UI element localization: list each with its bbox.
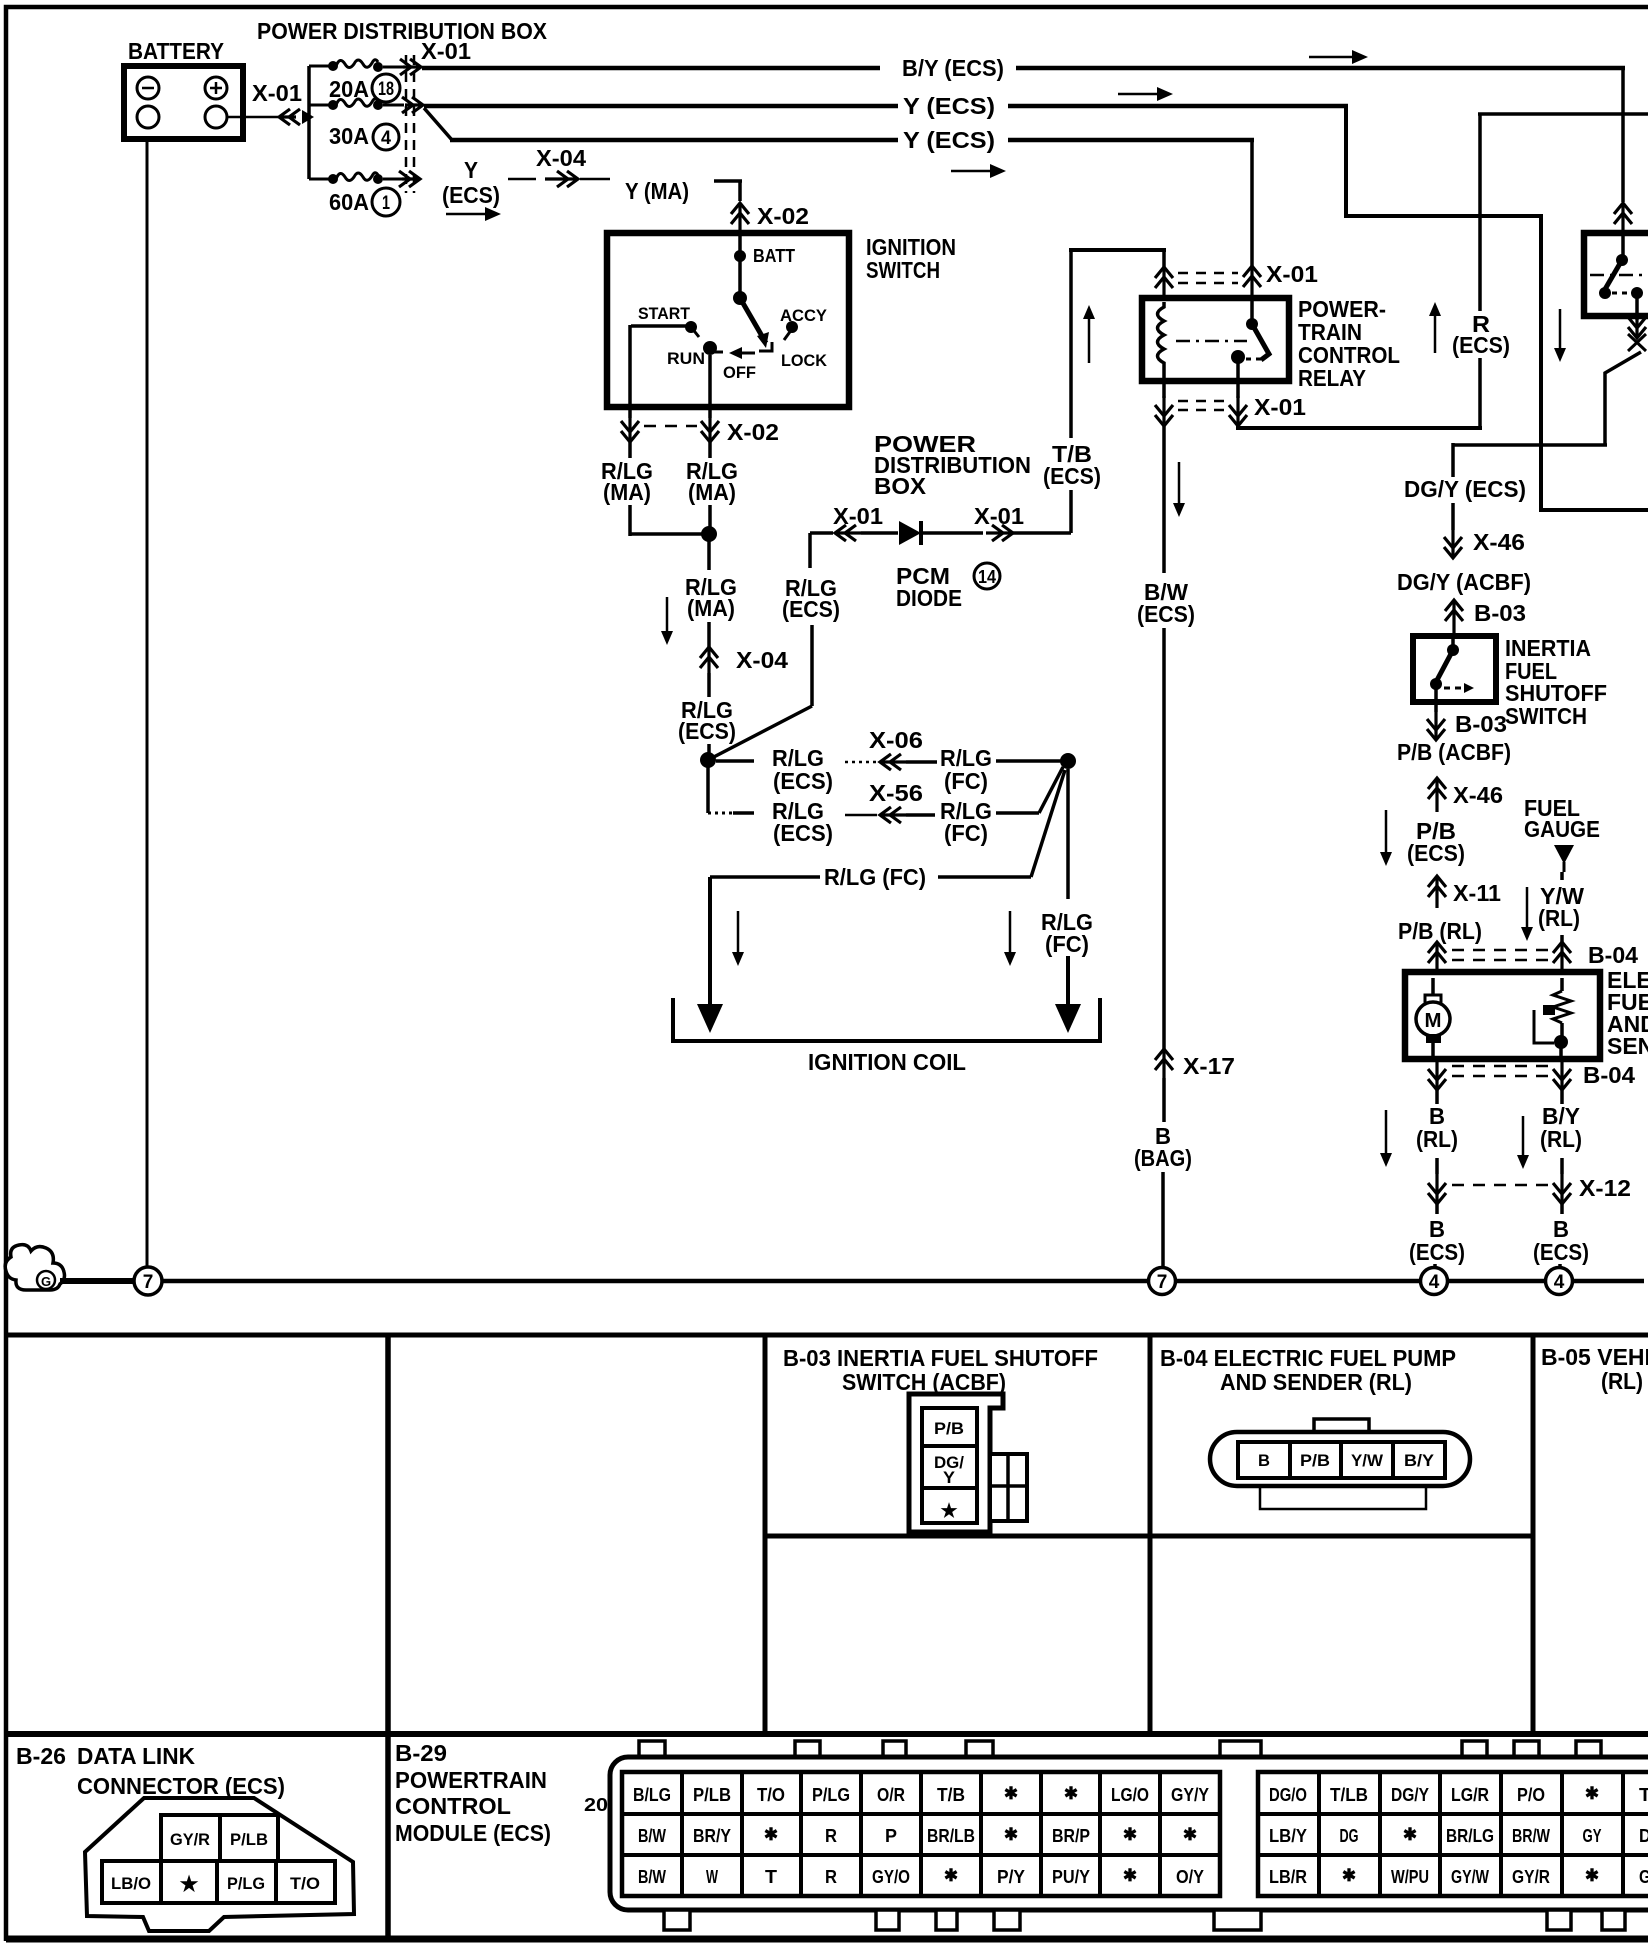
wire T/B riser [1069, 490, 1073, 533]
arrow coil left [737, 911, 740, 953]
svg-text:BR/Y: BR/Y [693, 1826, 731, 1846]
svg-text:X-11: X-11 [1453, 880, 1501, 906]
svg-text:IGNITION COIL: IGNITION COIL [808, 1049, 966, 1075]
svg-text:✱: ✱ [1183, 1825, 1197, 1844]
svg-text:DG/Y (ECS): DG/Y (ECS) [1404, 476, 1526, 502]
table sub divider [765, 1534, 1533, 1539]
svg-text:SWITCH (ACBF): SWITCH (ACBF) [842, 1369, 1006, 1395]
wire diode label down [810, 625, 814, 706]
svg-text:B-04: B-04 [1588, 942, 1638, 968]
connector X-01 relay bottom pair [1162, 396, 1165, 426]
wire B ECS right end [1558, 1264, 1562, 1267]
battery minus terminal [137, 77, 159, 99]
svg-text:30A: 30A [329, 123, 369, 149]
svg-text:D: D [1639, 1826, 1648, 1846]
svg-text:(ECS): (ECS) [782, 596, 840, 622]
svg-text:✱: ✱ [1123, 1825, 1137, 1844]
wire R/LG FC row3 [710, 875, 820, 879]
wire to junction 2 [707, 744, 711, 755]
svg-text:(ECS): (ECS) [1137, 601, 1195, 627]
svg-text:P/LB: P/LB [693, 1785, 731, 1805]
svg-text:LOCK: LOCK [781, 351, 828, 370]
ignition switch box [607, 233, 849, 407]
relay switch pin [1250, 298, 1254, 322]
svg-text:B/W: B/W [638, 1826, 666, 1846]
B-26 pin P/LB [220, 1815, 278, 1861]
wire Y (ECS) 2 left [424, 104, 898, 109]
fuse 30A [328, 100, 338, 110]
wire B ECS right [1560, 1204, 1564, 1214]
svg-text:ACCY: ACCY [780, 306, 828, 325]
inertia switch arm [1436, 650, 1453, 682]
svg-text:(ECS): (ECS) [1043, 463, 1101, 489]
B-04 connector top tab [1314, 1419, 1369, 1434]
svg-text:B-26: B-26 [16, 1743, 66, 1769]
arrow T/B up [1088, 318, 1091, 363]
svg-text:✱: ✱ [1064, 1784, 1078, 1803]
connector X-01 relay top pair [1162, 267, 1165, 298]
ground point 7 battery [134, 1267, 162, 1295]
fuse number 18 [372, 74, 400, 102]
svg-text:(RL): (RL) [1416, 1126, 1458, 1152]
relay link dashes [1176, 340, 1247, 343]
wire R/LG ECS row1 [716, 759, 754, 763]
svg-text:P: P [885, 1826, 897, 1846]
svg-text:Y/W: Y/W [1351, 1451, 1384, 1470]
connector X-11 up [1435, 876, 1438, 908]
svg-text:MODULE (ECS): MODULE (ECS) [395, 1820, 551, 1846]
fuel pump relay out [1635, 293, 1639, 320]
svg-text:X-46: X-46 [1473, 529, 1525, 555]
svg-text:GY/Y: GY/Y [1171, 1785, 1209, 1805]
inertia fuel shutoff switch box [1413, 636, 1496, 702]
svg-text:(ECS): (ECS) [773, 820, 833, 846]
svg-text:DATA LINK: DATA LINK [77, 1743, 195, 1769]
svg-text:LB/O: LB/O [111, 1874, 151, 1893]
svg-text:★: ★ [940, 1501, 957, 1522]
svg-text:X-06: X-06 [869, 727, 923, 753]
ground bus wire [60, 1279, 1644, 1284]
svg-text:60A: 60A [329, 189, 369, 215]
B-26 pin T/O [276, 1861, 335, 1903]
arrow down right [1559, 309, 1562, 349]
wire coil left drop [708, 877, 712, 1004]
svg-text:B-03: B-03 [1455, 711, 1507, 737]
svg-text:✱: ✱ [944, 1866, 958, 1885]
svg-text:RELAY: RELAY [1298, 365, 1366, 391]
svg-text:GAUGE: GAUGE [1524, 816, 1600, 842]
relay output pin [1236, 362, 1240, 398]
connector B-03 up [1452, 600, 1455, 634]
B-26 pin LB/O [102, 1861, 161, 1903]
svg-text:DG: DG [1340, 1826, 1359, 1846]
svg-text:P/O: P/O [1517, 1785, 1545, 1805]
svg-text:X-02: X-02 [727, 419, 779, 445]
inertia switch pin [1451, 636, 1455, 648]
fuel sender resistor [1560, 978, 1564, 991]
table row divider [6, 1731, 1648, 1737]
wire B ECS left [1435, 1204, 1439, 1214]
wire R/LG ECS row2 [706, 760, 710, 813]
ground point 7 bag [1149, 1268, 1176, 1295]
svg-text:CONNECTOR (ECS): CONNECTOR (ECS) [77, 1773, 285, 1799]
svg-text:W: W [706, 1867, 718, 1887]
svg-text:T: T [1639, 1785, 1648, 1805]
svg-text:(RL): (RL) [1540, 1126, 1582, 1152]
svg-text:(ECS): (ECS) [1407, 840, 1465, 866]
wire B/Y (ECS) right [1016, 66, 1625, 71]
B-03 connector tabs [990, 1454, 1027, 1521]
fuse 60A [328, 174, 338, 184]
svg-text:X-01: X-01 [252, 80, 302, 106]
wire B BAG top [1162, 1078, 1166, 1122]
svg-text:Y (ECS): Y (ECS) [903, 127, 995, 153]
fuel pump relay contacts [1599, 287, 1611, 299]
svg-text:BATTERY: BATTERY [128, 38, 224, 64]
svg-text:✱: ✱ [1585, 1866, 1599, 1885]
battery B+ box [124, 66, 243, 139]
svg-text:SWITCH: SWITCH [866, 257, 940, 283]
connector X-12 pair [1435, 1174, 1438, 1204]
B-03 connector outline [909, 1394, 1003, 1532]
svg-text:P/B (RL): P/B (RL) [1398, 918, 1482, 944]
svg-text:P/B (ACBF): P/B (ACBF) [1397, 739, 1511, 765]
B-26 pin P/LG [217, 1861, 276, 1903]
fuse bus [307, 66, 311, 179]
svg-text:18: 18 [378, 79, 394, 100]
connector X-01 out 60A [402, 177, 420, 180]
connector X-01 out 20A [403, 65, 421, 68]
svg-text:B/Y (ECS): B/Y (ECS) [902, 55, 1004, 81]
B-04 connector cells [1238, 1442, 1445, 1478]
arrow Y2 direction [1118, 93, 1159, 96]
contact OFF [733, 352, 755, 355]
svg-text:BR/P: BR/P [1052, 1826, 1090, 1846]
wire RUN to junction [708, 505, 712, 528]
wire FC row3 diagonal [938, 875, 1031, 879]
pin BATT [738, 233, 742, 255]
table column divider 1 [385, 1335, 391, 1937]
junction R/LG 2 [700, 752, 716, 768]
powertrain control relay box [1142, 298, 1289, 381]
svg-text:BR/LB: BR/LB [927, 1826, 975, 1846]
svg-text:SWITCH: SWITCH [1505, 703, 1587, 729]
relay coil pin bottom [1162, 378, 1166, 398]
svg-text:P/B: P/B [934, 1419, 964, 1438]
arrow coil right [1009, 911, 1012, 953]
B-29 connector bottom tabs [664, 1910, 690, 1930]
fuse number 1 [372, 188, 400, 216]
connector chevron relay out [1635, 320, 1638, 338]
svg-text:B/Y: B/Y [1404, 1451, 1435, 1470]
wire relay out diagonal [1605, 352, 1641, 445]
arrow Y/W down [1526, 887, 1529, 928]
svg-text:(FC): (FC) [1045, 931, 1089, 957]
wire to X-04 [707, 622, 711, 647]
wire RUN branch [708, 355, 712, 418]
connector X-46 up [1435, 778, 1438, 812]
ground symbol [5, 1245, 64, 1290]
svg-text:Y: Y [943, 1468, 956, 1487]
svg-text:AND SENDER (RL): AND SENDER (RL) [1220, 1369, 1412, 1395]
svg-text:(FC): (FC) [944, 820, 988, 846]
connector chevron B/Y relay [1621, 203, 1624, 233]
svg-text:(ECS): (ECS) [678, 718, 736, 744]
wire junction down [707, 541, 711, 570]
arrow B/W down [1178, 462, 1181, 504]
fuel sender wiper [1543, 1005, 1555, 1015]
B-29 connector outer shell [610, 1757, 1648, 1910]
svg-text:X-01: X-01 [974, 503, 1024, 529]
svg-text:B/W: B/W [638, 1867, 666, 1887]
svg-text:LB/Y: LB/Y [1269, 1826, 1307, 1846]
fuse 20A [328, 61, 338, 71]
connector X-17 up [1162, 1049, 1165, 1078]
svg-text:(FC): (FC) [944, 768, 988, 794]
electric fuel pump and sender box [1405, 972, 1600, 1059]
svg-text:BATT: BATT [753, 246, 795, 266]
arrow B/Y direction [1309, 56, 1354, 59]
svg-text:X-04: X-04 [736, 647, 788, 673]
connector X-06 inline [845, 761, 877, 764]
svg-text:★: ★ [180, 1873, 199, 1896]
ground point 4 right [1546, 1268, 1573, 1295]
wire battery ground drop [146, 139, 149, 1267]
svg-text:B-04 ELECTRIC FUEL PUMP: B-04 ELECTRIC FUEL PUMP [1160, 1345, 1456, 1371]
relay switch arm [1252, 324, 1269, 360]
arrow Y60A direction [446, 213, 487, 216]
svg-text:X-56: X-56 [869, 780, 923, 806]
arrow B/Y down [1522, 1116, 1525, 1156]
svg-text:BR/LG: BR/LG [1446, 1826, 1494, 1846]
wire DG/Y top [1451, 443, 1455, 477]
svg-text:GY/W: GY/W [1451, 1867, 1489, 1887]
B-26 pin star [161, 1861, 217, 1903]
ignition coil bracket [673, 998, 1100, 1041]
connector X-01 battery [279, 115, 296, 118]
svg-text:T/B: T/B [937, 1785, 965, 1805]
svg-text:BOX: BOX [874, 473, 927, 499]
contact RUN [703, 341, 717, 355]
svg-text:R/LG (FC): R/LG (FC) [824, 864, 926, 890]
wire to fuse 30A [309, 104, 331, 107]
svg-text:R: R [825, 1826, 837, 1846]
svg-text:Y (ECS): Y (ECS) [903, 93, 995, 119]
svg-text:X-04: X-04 [536, 145, 586, 171]
relay coil [1158, 302, 1165, 378]
junction R/LG FC [1060, 753, 1076, 769]
svg-text:GY/O: GY/O [872, 1867, 910, 1887]
wire Y (MA) to ignition [714, 179, 742, 183]
connector X-01 out 30A [405, 103, 423, 106]
svg-text:(ECS): (ECS) [1409, 1239, 1465, 1265]
svg-text:GY/R: GY/R [1512, 1867, 1550, 1887]
connector X-04 mid [707, 647, 710, 673]
svg-text:4: 4 [1429, 1272, 1440, 1293]
arrow R up [1434, 315, 1437, 353]
contact START [685, 321, 697, 333]
wire START branch [631, 324, 686, 328]
wire B/Y (ECS) left [422, 66, 880, 71]
svg-text:PU/Y: PU/Y [1052, 1867, 1090, 1887]
svg-text:M: M [1425, 1010, 1442, 1032]
switch arm ignition [740, 298, 766, 343]
wire B ECS left end [1433, 1264, 1437, 1267]
wire Y (ECS) 3 right [1008, 138, 1254, 143]
svg-text:DG/Y (ACBF): DG/Y (ACBF) [1397, 569, 1531, 595]
wire RUN down [708, 442, 712, 458]
svg-text:DG/O: DG/O [1269, 1785, 1307, 1805]
wire DG/Y mid [1451, 503, 1455, 530]
ground point 4 left [1421, 1268, 1448, 1295]
arrow Y3 direction [951, 170, 992, 173]
svg-text:X-01: X-01 [1266, 261, 1318, 287]
svg-text:✱: ✱ [764, 1825, 778, 1844]
table column divider 4 [1531, 1335, 1536, 1734]
svg-text:✱: ✱ [1585, 1784, 1599, 1803]
wire B (RL) [1435, 1090, 1439, 1104]
wire diode corner [808, 533, 812, 568]
svg-text:(ECS): (ECS) [442, 182, 500, 208]
svg-text:1: 1 [382, 193, 390, 214]
table column divider 2 [763, 1335, 768, 1734]
svg-text:Y: Y [464, 157, 478, 183]
table top border [6, 1333, 1648, 1338]
svg-text:✱: ✱ [1004, 1825, 1018, 1844]
contact LOCK [759, 342, 772, 351]
svg-text:B-04: B-04 [1583, 1062, 1635, 1088]
wire Y (ECS) 3 left [450, 138, 898, 143]
wire 30A to Y3 jog [424, 108, 452, 140]
svg-text:SENDER: SENDER [1607, 1033, 1648, 1059]
svg-text:B: B [1258, 1451, 1270, 1470]
connector X-02 ignition top [738, 203, 741, 233]
contact ACCY [786, 321, 798, 333]
svg-text:4: 4 [1554, 1272, 1565, 1293]
svg-text:B-03: B-03 [1474, 600, 1526, 626]
connector X-46 down [1451, 530, 1454, 558]
svg-text:DG/Y: DG/Y [1391, 1785, 1429, 1805]
fuel pump relay pin [1621, 233, 1625, 258]
connector X-04 inline [508, 178, 536, 181]
wire to fuse 60A [309, 178, 331, 181]
svg-text:(BAG): (BAG) [1134, 1145, 1192, 1171]
svg-text:LG/R: LG/R [1451, 1785, 1489, 1805]
svg-text:14: 14 [978, 567, 996, 587]
wire diagonal to junction [708, 706, 812, 760]
svg-text:O/R: O/R [877, 1785, 905, 1805]
wire START to junction [628, 505, 632, 536]
svg-text:✱: ✱ [1123, 1866, 1137, 1885]
svg-text:GY: GY [1583, 1826, 1602, 1846]
wire BATT to pivot [738, 256, 742, 297]
wire FC row2 diagonal [996, 811, 1039, 815]
svg-text:X-01: X-01 [833, 503, 883, 529]
svg-text:T/LB: T/LB [1330, 1785, 1368, 1805]
wire B/W top [1162, 426, 1166, 460]
wire Y/W [1560, 872, 1564, 880]
connector X-01 diode left [810, 531, 833, 535]
B-04 connector stadium [1210, 1432, 1470, 1486]
connector X-01 dashes [405, 55, 408, 193]
svg-text:✱: ✱ [1004, 1784, 1018, 1803]
svg-text:20: 20 [584, 1795, 608, 1815]
svg-text:LG/O: LG/O [1111, 1785, 1149, 1805]
wire Y (ECS) 2 right [1008, 104, 1348, 109]
svg-text:W/PU: W/PU [1391, 1867, 1429, 1887]
svg-text:CONTROL: CONTROL [395, 1793, 511, 1819]
svg-text:BR/W: BR/W [1512, 1826, 1550, 1846]
B-29 connector top tabs [639, 1741, 665, 1758]
wire FC row1 to junction [996, 759, 1061, 763]
svg-text:RUN: RUN [667, 349, 705, 368]
wire battery to X-01 [227, 116, 278, 119]
B-26 connector outline [85, 1798, 354, 1931]
connector X-02 bottom pair [628, 418, 631, 442]
svg-text:P/LG: P/LG [227, 1874, 265, 1893]
B-26 pin GY/R [161, 1815, 220, 1861]
svg-text:P/B: P/B [1300, 1451, 1330, 1470]
svg-text:G: G [1639, 1867, 1648, 1887]
svg-text:Y (MA): Y (MA) [625, 178, 689, 204]
B-03 connector cells [922, 1408, 977, 1523]
svg-text:R: R [825, 1867, 837, 1887]
wire B BAG bottom [1161, 1172, 1165, 1267]
battery post left [137, 106, 159, 128]
junction battery feed [302, 110, 314, 124]
fuel pump motor [1431, 978, 1435, 996]
connector X crossing [1628, 334, 1646, 351]
svg-text:(MA): (MA) [603, 479, 651, 505]
table column divider 3 [1148, 1335, 1153, 1734]
svg-text:T/O: T/O [290, 1874, 320, 1893]
B-29 pin grid right block [1258, 1772, 1648, 1896]
svg-text:B-29: B-29 [395, 1740, 447, 1766]
svg-text:20A: 20A [329, 76, 369, 102]
svg-text:X-17: X-17 [1183, 1053, 1235, 1079]
arrow P/B down [1385, 810, 1388, 853]
svg-text:B-05 VEHICLE SPEED: B-05 VEHICLE SPEED [1541, 1344, 1648, 1370]
junction R/LG [701, 526, 717, 542]
svg-text:T/O: T/O [757, 1785, 785, 1805]
svg-text:B-03 INERTIA FUEL SHUTOFF: B-03 INERTIA FUEL SHUTOFF [783, 1345, 1098, 1371]
svg-text:(ECS): (ECS) [1452, 332, 1510, 358]
svg-text:(MA): (MA) [687, 595, 735, 621]
svg-text:POWER DISTRIBUTION BOX: POWER DISTRIBUTION BOX [257, 18, 548, 44]
svg-text:X-46: X-46 [1453, 782, 1503, 808]
inertia switch out [1434, 688, 1438, 712]
svg-text:(MA): (MA) [688, 479, 736, 505]
svg-text:X-12: X-12 [1579, 1175, 1631, 1201]
arrow B down [1385, 1110, 1388, 1154]
ignition coil arrow right [1055, 1004, 1081, 1033]
wire START down [628, 442, 632, 458]
svg-text:4: 4 [381, 128, 391, 149]
connector B-03 down [1434, 712, 1437, 740]
fuse number 4 [373, 124, 399, 150]
diode PCM [899, 521, 921, 545]
svg-text:G: G [41, 1274, 51, 1289]
battery post right [205, 106, 227, 128]
svg-text:(ECS): (ECS) [773, 768, 833, 794]
wire to fuse 20A [309, 65, 331, 68]
connector B-04 top pair [1435, 942, 1438, 972]
svg-text:(ECS): (ECS) [1533, 1239, 1589, 1265]
svg-text:7: 7 [143, 1272, 154, 1293]
connector B-04 bottom pair [1435, 1059, 1438, 1090]
svg-text:LB/R: LB/R [1269, 1867, 1307, 1887]
svg-text:P/LG: P/LG [812, 1785, 850, 1805]
